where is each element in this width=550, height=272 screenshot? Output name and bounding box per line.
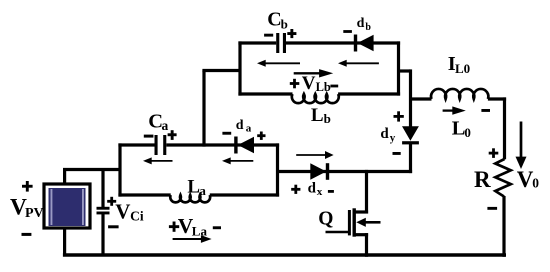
svg-text:C: C (267, 9, 281, 31)
svg-text:d: d (236, 118, 244, 133)
svg-text:L: L (452, 117, 466, 139)
svg-text:a: a (199, 183, 206, 198)
svg-text:L0: L0 (455, 61, 470, 76)
wire loop-b bottom left segment (238, 92, 292, 95)
wire dy branch upper (409, 69, 412, 127)
svg-text:b: b (324, 111, 331, 126)
sign plus R (489, 152, 499, 155)
sign minus VPV (22, 233, 32, 236)
sign plus Cb (287, 32, 296, 35)
wire loop-a bottom left segment (118, 193, 170, 196)
svg-text:La: La (192, 224, 208, 239)
diode dy (402, 126, 419, 141)
svg-text:a: a (162, 118, 169, 133)
sign minus VLa (213, 226, 221, 229)
svg-text:Ci: Ci (130, 208, 144, 223)
arrow right below L0 (443, 109, 454, 111)
sign plus VLa (169, 225, 179, 228)
solar panel VPV (44, 184, 90, 228)
wire right edge down to resistor (503, 97, 506, 159)
sign minus VLb (330, 85, 338, 88)
wire loop-b bottom right segment (338, 92, 400, 95)
arrow left inside loop-b 2 (345, 62, 379, 64)
arrow right VLb (294, 72, 321, 74)
wire loop-a left edge (118, 143, 121, 196)
diode da (234, 137, 237, 154)
wire dy branch lower (409, 144, 412, 174)
wire mosfet source horizontal (354, 233, 369, 236)
wire loop-b left edge (238, 41, 241, 95)
wire bottom rail (63, 253, 506, 257)
diode db (354, 35, 357, 52)
wire vertical link loop-a to loop-b (202, 71, 205, 147)
sign minus Cb (264, 34, 273, 37)
wire main horizontal with dx (278, 170, 413, 173)
svg-text:a: a (246, 123, 252, 135)
svg-text:d: d (357, 16, 365, 31)
wire feed from PV node to loop-a left edge (63, 168, 121, 171)
wire loop-a top segment left of Ca (118, 143, 154, 146)
arrow left inside loop-b 1 (264, 62, 301, 64)
sign minus dy (393, 152, 401, 155)
wire L0 to right corner (488, 97, 506, 100)
diode dx (310, 163, 326, 179)
wire VCi branch lower (101, 214, 104, 255)
svg-text:x: x (317, 186, 323, 198)
svg-text:b: b (281, 17, 288, 32)
svg-text:b: b (365, 22, 371, 33)
wire mosfet drain horizontal (354, 210, 369, 213)
wire resistor bottom to rail (502, 196, 505, 257)
capacitor VCi plates (97, 207, 110, 215)
wire loop-b top segment right of Cb (286, 41, 400, 44)
svg-text:PV: PV (25, 206, 44, 221)
svg-text:R: R (474, 167, 491, 192)
svg-text:d: d (308, 181, 317, 197)
arrow left inside loop-a 2 (229, 160, 254, 162)
sign plus VPV (22, 185, 33, 188)
svg-text:0: 0 (532, 175, 539, 190)
capacitor Ca plates (155, 135, 158, 155)
wire loop-a bottom right segment (210, 193, 279, 196)
wire loop-b right edge (397, 41, 400, 95)
svg-text:Lb: Lb (316, 80, 331, 94)
svg-text:0: 0 (464, 125, 471, 140)
svg-text:L: L (311, 105, 324, 126)
wire mosfet source vertical (365, 233, 368, 257)
sign minus db (343, 30, 352, 33)
sign minus R (487, 207, 497, 210)
sign plus VLb (290, 82, 300, 85)
arrow right above dx (296, 154, 327, 156)
mosfet Q channel bar (353, 208, 356, 236)
wire PV top lead (63, 168, 66, 186)
svg-text:L: L (187, 177, 200, 198)
sign minus VCi (108, 225, 119, 228)
sign plus dx (291, 188, 300, 191)
wire jog from loop-b right edge to dy branch (399, 69, 411, 72)
svg-text:d: d (380, 126, 389, 142)
inductor L0 humps (431, 89, 488, 99)
wire tap to L0 (409, 97, 432, 100)
sign plus dy (394, 115, 404, 118)
wire mosfet gate lead (326, 231, 350, 234)
wire left rail PV bottom lead (63, 227, 66, 255)
arrow right VLa (173, 238, 203, 240)
resistor R zigzag (495, 159, 511, 197)
sign minus da (222, 132, 231, 135)
wire jog link to loop-b left edge (202, 69, 240, 72)
mosfet Q gate bar (348, 210, 351, 235)
sign plus VCi (107, 200, 116, 203)
arrow left inside loop-a 1 (150, 160, 173, 162)
wire loop-a right edge (276, 143, 279, 196)
sign minus Ca (144, 135, 154, 138)
signs plus minus (22, 29, 499, 236)
arrow down V0 (520, 122, 523, 159)
wire VCi branch upper (101, 170, 104, 208)
svg-text:y: y (390, 132, 396, 144)
inductor Lb loops (292, 94, 339, 103)
wire mosfet drain vertical (365, 170, 368, 214)
sign minus L0 (481, 109, 490, 112)
svg-text:V: V (302, 73, 316, 94)
wire loop-a top segment right of Ca (166, 143, 279, 146)
sign plus Ca (168, 133, 177, 136)
svg-text:V: V (115, 200, 130, 224)
svg-text:Q: Q (318, 209, 333, 230)
inductor La loops (170, 195, 210, 202)
capacitor Cb plates (276, 33, 279, 53)
wire loop-b top segment left of Cb (238, 41, 276, 44)
sign minus dx (328, 190, 334, 193)
sign plus da (257, 134, 265, 137)
mosfet Q body arrow (356, 218, 366, 227)
